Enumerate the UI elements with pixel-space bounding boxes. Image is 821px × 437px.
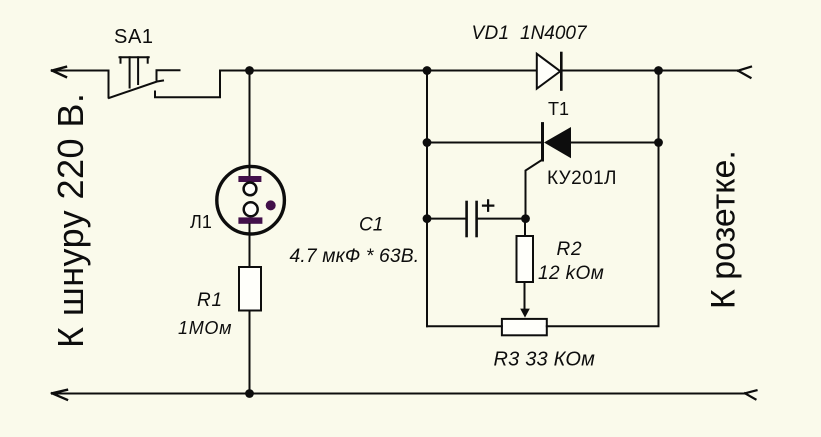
lamp L1 bottom electrode bar (238, 217, 262, 223)
wire cap to gate node (477, 218, 526, 220)
wire top-left horizontal (52, 70, 109, 72)
svg-text:1N4007: 1N4007 (520, 23, 588, 44)
label R1 (197, 290, 223, 311)
lamp L1 bottom electrode circle (244, 202, 258, 216)
wire diode cathode to right (561, 70, 738, 72)
label R2 value (538, 263, 604, 284)
thyristor gate wire (526, 160, 543, 219)
wire lamp to R1 (249, 224, 251, 267)
label SA1 (114, 26, 154, 48)
label K rozetke (705, 150, 743, 309)
label 1N4007 (520, 23, 588, 44)
wire node to R2 (524, 219, 526, 236)
label R3 value (494, 349, 596, 371)
svg-text:К розетке.: К розетке. (705, 150, 743, 309)
label 1MOm (178, 318, 232, 338)
svg-text:4.7 мкФ * 63В.: 4.7 мкФ * 63В. (290, 246, 420, 267)
node R1 bottom junction (245, 389, 254, 398)
node cap row left (423, 214, 432, 223)
wire R2 to wiper (524, 282, 526, 309)
node gate/cap/R2 junction (521, 214, 530, 223)
lamp L1 top electrode bar (238, 176, 261, 182)
svg-text:1МОм: 1МОм (178, 318, 232, 338)
label L1 (190, 212, 212, 232)
label C1 value (290, 246, 420, 267)
wire top-left arrow (52, 67, 66, 77)
wire R1 to bottom rail (249, 311, 251, 394)
svg-text:R2: R2 (557, 239, 583, 260)
capacitor C1 (467, 202, 477, 236)
switch SA1 lower contact (155, 71, 220, 98)
lamp L1 top electrode circle (244, 183, 257, 196)
svg-text:С1: С1 (359, 215, 383, 236)
wire top-right arrow (738, 67, 751, 78)
wire switch left drop (108, 71, 110, 98)
resistor R2 (517, 236, 534, 282)
node top of lamp branch (245, 66, 254, 75)
wire bottom-right arrow (745, 390, 757, 399)
thyristor T1 (543, 124, 572, 160)
svg-text:SA1: SA1 (114, 26, 154, 48)
wire thyristor row left (427, 142, 543, 144)
potentiometer R3 body (502, 319, 547, 335)
wire cap row left (427, 218, 466, 220)
svg-text:Т1: Т1 (548, 99, 569, 119)
svg-text:R3 33 КОм: R3 33 КОм (494, 349, 596, 371)
resistor R1 (239, 267, 261, 311)
node top-right corner (654, 66, 663, 75)
label R2 (557, 239, 583, 260)
potentiometer R3 wiper arrow (520, 309, 530, 318)
label K shnuru 220 V (50, 93, 91, 348)
diode VD1 (537, 53, 562, 90)
wire thyristor branch left vertical (426, 71, 428, 327)
switch SA1 actuator (120, 57, 149, 87)
wire bottom loop right (547, 71, 659, 327)
node anode row left (423, 138, 432, 147)
svg-text:R1: R1 (197, 290, 223, 311)
svg-text:КУ201Л: КУ201Л (547, 168, 617, 189)
switch SA1 upper contact stub (157, 70, 180, 79)
label C1 (359, 215, 383, 236)
node thyristor row right (654, 138, 663, 147)
wire top rail (switch to diode anode) (220, 70, 537, 72)
svg-text:Л1: Л1 (190, 212, 212, 232)
neon lamp L1 envelope (217, 166, 285, 234)
label T1 (548, 99, 569, 119)
wire bottom rail (52, 393, 745, 395)
node top of thyristor branch (423, 66, 432, 75)
svg-text:К шнуру 220 В.: К шнуру 220 В. (50, 93, 91, 348)
wire thyristor row right (571, 142, 659, 144)
svg-text:12 kОм: 12 kОм (538, 263, 604, 284)
svg-text:VD1: VD1 (472, 23, 510, 44)
label KU201L (547, 168, 617, 189)
capacitor C1 plus sign (483, 200, 493, 210)
lamp L1 gas dot (266, 200, 276, 210)
label VD1 (472, 23, 510, 44)
switch SA1 blade (109, 81, 163, 99)
wire bottom loop left (427, 325, 502, 327)
wire bottom-left arrow (52, 390, 67, 400)
wire lamp branch vertical upper (249, 71, 251, 177)
